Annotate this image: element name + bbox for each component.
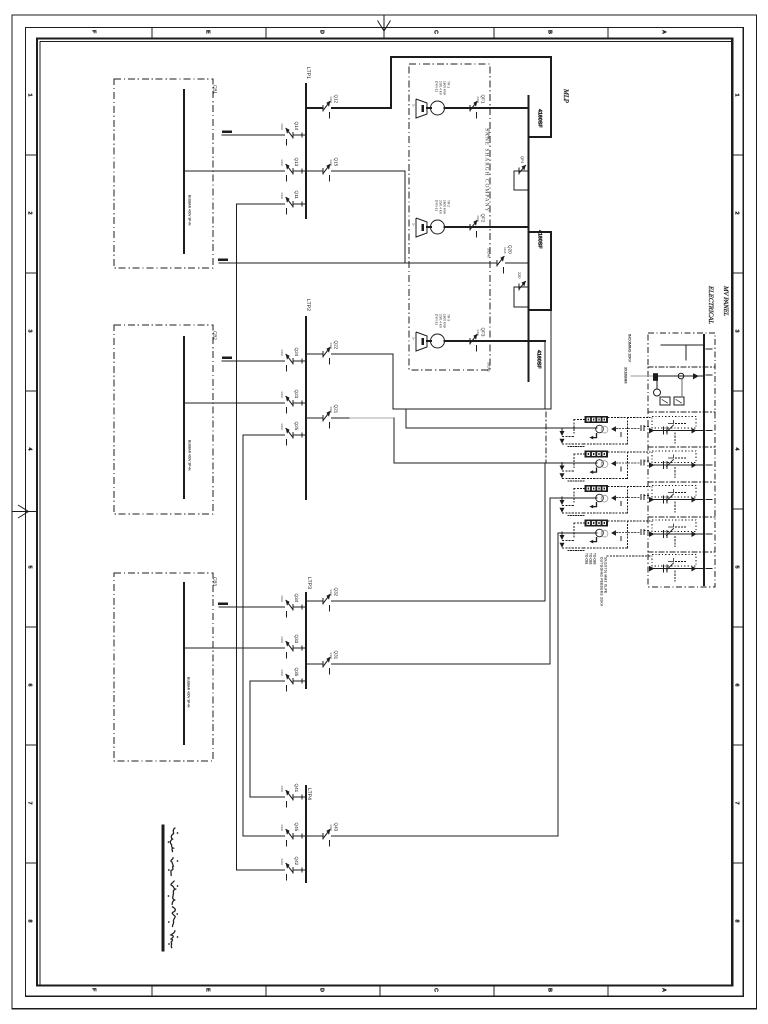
tie wire LTP1-LTP4 vertical: [236, 204, 238, 870]
wire transformer T1 output: [445, 107, 529, 109]
meter return arrow: [593, 537, 597, 542]
CT arrow: [611, 461, 616, 467]
bus LTP2: [305, 317, 307, 499]
zone ticks left edge: [25, 154, 37, 156]
svg-text:DYN-11: DYN-11: [435, 200, 439, 211]
svg-text:5: 5: [27, 566, 33, 569]
kWh meter circles: [596, 529, 604, 537]
svg-text:Q21: Q21: [334, 405, 339, 414]
svg-text:630A: 630A: [280, 160, 284, 167]
svg-text:3~: 3~: [412, 337, 416, 341]
dotted wire strip left: [574, 488, 585, 490]
svg-text:4160SF: 4160SF: [536, 350, 542, 369]
main LV supply wire to MV riser: [219, 262, 529, 264]
relay box 2: [674, 397, 684, 405]
svg-text:630A: 630A: [503, 247, 507, 254]
svg-text:630A: 630A: [280, 670, 284, 677]
switch Q34: [285, 606, 294, 609]
wire LTP3 to metering junction (Q32 branch): [306, 600, 545, 602]
wire CB1 busbar to LTP1: [184, 170, 306, 172]
centering arrow top: [383, 15, 385, 39]
dotted wire strip to MV bay: [608, 417, 650, 419]
svg-text:630A: 630A: [329, 343, 333, 350]
transformer T1: [416, 99, 427, 118]
wire LTP1 to MLP bay1 (Q12 branch): [306, 107, 391, 109]
bay switch: [663, 565, 665, 572]
svg-text:630A: 630A: [280, 424, 284, 431]
bay dotted box: [652, 486, 696, 498]
svg-text:1: 1: [27, 94, 33, 97]
tap wire to metering feeder 1: [405, 409, 407, 428]
incomer arrow: [693, 373, 699, 379]
svg-text:Q20: Q20: [508, 245, 513, 254]
svg-text:Q35: Q35: [294, 668, 299, 677]
wire LTP1 to LTP4 tie (Q11 branch): [237, 203, 307, 205]
switch QF2: [470, 226, 479, 229]
bay dotted box: [652, 555, 696, 567]
bus LTP3: [305, 593, 307, 688]
svg-text:3X(1X70) MM2 XLPE: 3X(1X70) MM2 XLPE: [604, 557, 608, 593]
svg-text:SANE SHARGH COMPANY: SANE SHARGH COMPANY: [484, 128, 490, 212]
tie wire LTP3-LTP4 vertical: [249, 681, 251, 797]
svg-text:BUSBAR 400V 3P+N: BUSBAR 400V 3P+N: [188, 195, 192, 226]
svg-text:630A: 630A: [280, 859, 284, 866]
switch Q23: [285, 402, 294, 405]
MV panel enclosure: [648, 333, 715, 587]
svg-text:LTP4: LTP4: [306, 788, 312, 800]
svg-text:MLP: MLP: [562, 88, 570, 104]
dotted links: [563, 540, 575, 542]
kWh meter circles: [596, 425, 604, 433]
svg-text:B: B: [547, 30, 553, 34]
switch Q33: [285, 647, 294, 650]
bay switch: [663, 531, 665, 538]
wire transformer T3 output: [445, 340, 546, 342]
svg-text:LTP1: LTP1: [305, 67, 311, 79]
svg-text:D: D: [319, 30, 325, 34]
panel box CB3 (dashed enclosure): [114, 573, 213, 761]
dotted wire strip left: [574, 522, 585, 524]
svg-text:DYN-11: DYN-11: [435, 81, 439, 92]
dotted links: [563, 470, 575, 472]
zone ticks right edge: [732, 154, 743, 156]
bay2 outline: [529, 231, 551, 233]
centering arrow left: [12, 511, 37, 513]
spare feeder tag: [222, 131, 232, 133]
bay dotted box: [652, 417, 696, 429]
bus LTP1: [305, 84, 307, 218]
svg-text:D: D: [319, 988, 325, 992]
bay switch: [663, 496, 665, 503]
svg-text:630A: 630A: [476, 330, 480, 337]
svg-text:4160SF: 4160SF: [537, 109, 543, 128]
wire tie from LTP3 to LTP4 (Q41): [250, 796, 306, 798]
svg-text:BUSBAR 400V 3P+N: BUSBAR 400V 3P+N: [187, 677, 191, 708]
dotted wire strip left: [574, 453, 585, 455]
svg-text:Q15: Q15: [334, 158, 339, 167]
wire CB2 busbar to LTP2: [184, 402, 306, 404]
switch Q42: [285, 869, 294, 872]
svg-text:8: 8: [734, 920, 740, 923]
svg-text:Q14: Q14: [294, 122, 299, 131]
switch Q32: [323, 600, 332, 603]
switch Q41: [285, 796, 294, 799]
switch Q12: [323, 107, 332, 110]
bay input arrow: [649, 428, 655, 434]
wire LTP1 to riser (Q15 branch): [306, 170, 405, 172]
switch Q21: [323, 417, 332, 420]
svg-text:8: 8: [27, 920, 33, 923]
svg-text:B: B: [547, 988, 553, 992]
svg-text:630A: 630A: [476, 97, 480, 104]
svg-text:3X240: 3X240: [487, 248, 491, 258]
dotted wire strip to MV bay: [608, 451, 650, 453]
svg-text:Q23: Q23: [294, 390, 299, 399]
svg-text:3: 3: [734, 330, 740, 333]
wire LTP2 to LTP4 tie (Q25 branch): [243, 434, 306, 436]
incomer VT circle: [678, 373, 684, 379]
svg-text:BUSBAR 400V 3P+N: BUSBAR 400V 3P+N: [188, 440, 192, 471]
metering CT terminal strip: [585, 451, 609, 458]
svg-text:630A: 630A: [329, 97, 333, 104]
svg-text:220: 220: [517, 272, 521, 278]
svg-text:630A: 630A: [280, 825, 284, 832]
bay switch: [663, 462, 665, 469]
svg-text:Q12: Q12: [334, 95, 339, 104]
svg-text:Q32: Q32: [334, 588, 339, 597]
supply wire tag: [218, 259, 228, 261]
svg-text:DYN-11: DYN-11: [435, 314, 439, 325]
svg-text:A: A: [661, 988, 667, 992]
svg-text:Q25: Q25: [294, 422, 299, 431]
dotted wire strip left: [574, 419, 585, 421]
svg-text:INCOMING 20KV: INCOMING 20KV: [628, 334, 632, 363]
MV panel bay dividers: [648, 366, 715, 368]
svg-text:630A: 630A: [329, 653, 333, 660]
svg-text:E: E: [205, 988, 211, 992]
switch Q11: [285, 203, 294, 206]
svg-text:6: 6: [734, 684, 740, 687]
wire stub spare feeder LTP2: [222, 360, 306, 362]
svg-text:Q33: Q33: [294, 635, 299, 644]
svg-text:630A: 630A: [280, 193, 284, 200]
svg-text:A: A: [661, 30, 667, 34]
svg-text:MV PANEL: MV PANEL: [722, 285, 729, 317]
bay input arrow: [649, 566, 655, 572]
kWh meter circles: [596, 494, 604, 502]
meter return arrow: [593, 468, 597, 473]
supply arrows: [560, 535, 565, 540]
svg-text:630A: 630A: [476, 216, 480, 223]
wire transformer T2 output: [445, 226, 529, 228]
svg-text:3~: 3~: [412, 223, 416, 227]
bay switch: [663, 427, 665, 434]
svg-text:Q31: Q31: [334, 651, 339, 660]
5th bay dotted wire: [607, 555, 650, 557]
inner frame doubled line left: [39, 42, 41, 986]
transformer room enclosure: [409, 64, 490, 370]
svg-text:TO CB2: TO CB2: [589, 553, 593, 565]
bay dotted box: [652, 451, 696, 463]
transformer3 down feeder: [544, 341, 546, 409]
svg-text:LTP2: LTP2: [305, 299, 311, 311]
svg-text:5: 5: [734, 566, 740, 569]
meter return arrow: [593, 433, 597, 438]
earthing switch QF4: [514, 170, 529, 172]
svg-text:630A: 630A: [280, 596, 284, 603]
svg-text:630A: 630A: [329, 590, 333, 597]
svg-text:7: 7: [27, 802, 33, 805]
switch Q22: [323, 353, 332, 356]
switch Q15: [323, 170, 332, 173]
svg-text:ELECTRICAL: ELECTRICAL: [707, 285, 714, 324]
dotted wire strip to MV bay: [608, 486, 650, 488]
incomer CT: [653, 373, 658, 381]
svg-text:Q13: Q13: [294, 158, 299, 167]
transformer T2: [416, 218, 427, 237]
svg-text:Q22: Q22: [334, 341, 339, 350]
svg-text:OUTGOING FEEDERS 20KV: OUTGOING FEEDERS 20KV: [600, 557, 604, 607]
svg-text:TO CB1: TO CB1: [585, 553, 589, 565]
dotted links: [563, 505, 575, 507]
svg-text:630A: 630A: [280, 637, 284, 644]
svg-text:E: E: [205, 30, 211, 34]
svg-text:630A: 630A: [329, 825, 333, 832]
earthing switch 220: [514, 286, 529, 288]
MV incomer cable (faint): [631, 375, 653, 377]
svg-text:CB2: CB2: [213, 331, 218, 340]
svg-text:C: C: [433, 30, 439, 34]
svg-text:630A: 630A: [329, 160, 333, 167]
svg-text:630A: 630A: [280, 124, 284, 131]
svg-text:Q45: Q45: [294, 823, 299, 832]
svg-text:QF2: QF2: [481, 214, 486, 223]
switch Q13: [285, 170, 294, 173]
CT arrow: [611, 530, 616, 536]
svg-text:LTP3: LTP3: [306, 577, 312, 589]
bus LTP4: [305, 786, 307, 882]
switch Q45: [285, 835, 294, 838]
metering CT terminal strip: [585, 485, 609, 492]
MV bus: [703, 335, 705, 585]
svg-text:QF4: QF4: [520, 156, 524, 163]
svg-text:QF1: QF1: [481, 95, 486, 104]
wire LTP3 to metering feeder 3 (Q31 branch): [306, 663, 550, 665]
kWh meter circles: [596, 460, 604, 468]
svg-text:2: 2: [734, 212, 740, 215]
svg-text:7: 7: [734, 802, 740, 805]
switch Q24: [285, 360, 294, 363]
switch Q31: [323, 663, 332, 666]
MV riser: [528, 96, 530, 381]
transformer T3: [416, 332, 427, 351]
svg-text:CB1: CB1: [213, 85, 218, 94]
relay box 1: [660, 397, 670, 405]
switch Q25: [285, 434, 294, 437]
svg-text:3X240: 3X240: [487, 362, 491, 372]
switch Q14: [285, 134, 294, 137]
bay input arrow: [649, 531, 655, 537]
svg-text:Q34: Q34: [294, 594, 299, 603]
wire CB3 busbar to LTP3: [184, 647, 306, 649]
title underline: [162, 826, 165, 950]
switch Q20: [497, 262, 506, 265]
room boundary dash-dot: [545, 412, 547, 462]
wire LTP2 to bay2 (Q22 branch): [306, 353, 393, 355]
bay input arrow: [649, 497, 655, 503]
svg-text:630A: 630A: [280, 392, 284, 399]
bay dotted box: [652, 520, 696, 532]
spare feeder tag LTP2: [222, 357, 232, 359]
svg-text:3: 3: [27, 330, 33, 333]
wire LTP2 to metering feeder 2 (Q21 branch): [306, 417, 350, 419]
wire stub spare feeder LTP1: [222, 134, 306, 136]
svg-text:630A: 630A: [329, 407, 333, 414]
persian title (stylized): [170, 828, 175, 852]
tie wire LTP2-LTP4 vertical: [242, 435, 244, 836]
svg-text:CB3: CB3: [213, 577, 218, 586]
wire LTP3 to LTP4 tie (Q35 branch): [250, 680, 306, 682]
MV top compartment link: [661, 344, 704, 346]
supply arrows: [560, 500, 565, 505]
MV bus taps: [706, 348, 712, 350]
svg-text:2: 2: [27, 212, 33, 215]
svg-text:Q11: Q11: [294, 191, 299, 200]
svg-text:TO CB3: TO CB3: [593, 553, 597, 565]
wire tie from LTP2 + metering feeder 4 (Q45/Q43 branch): [243, 835, 306, 837]
wire tie from LTP1 to LTP4 (Q42): [237, 869, 307, 871]
wire stub spare feeder LTP3: [219, 606, 306, 608]
svg-text:3~: 3~: [412, 104, 416, 108]
svg-text:QF3: QF3: [481, 328, 486, 337]
svg-text:630A: 630A: [280, 350, 284, 357]
zone ticks bottom edge: [151, 986, 153, 997]
meter return arrow: [593, 502, 597, 507]
panel box CB1 (dashed enclosure): [114, 79, 213, 268]
svg-text:Q24: Q24: [294, 348, 299, 357]
incomer meter circle: [654, 389, 661, 396]
bay input arrow: [649, 462, 655, 468]
spare feeder tag LTP3: [218, 603, 228, 605]
supply arrows: [560, 466, 565, 471]
metering CT terminal strip: [585, 416, 609, 423]
svg-text:630A: 630A: [280, 786, 284, 793]
zone ticks top edge: [151, 27, 153, 38]
svg-text:6: 6: [27, 684, 33, 687]
CT arrow: [611, 426, 616, 432]
svg-text:Q42: Q42: [294, 857, 299, 866]
svg-text:C: C: [433, 988, 439, 992]
busbar of panel CB3: [183, 583, 185, 744]
busbar of panel CB2: [183, 337, 185, 498]
svg-text:3X185MM: 3X185MM: [624, 367, 628, 383]
busbar of panel CB1: [183, 90, 185, 253]
metering CT terminal strip: [585, 520, 609, 527]
supply arrows: [560, 431, 565, 436]
svg-text:Q43: Q43: [334, 823, 339, 832]
CT arrow: [611, 495, 616, 501]
dotted wire strip to MV bay: [608, 520, 650, 522]
panel box CB2 (dashed enclosure): [114, 325, 213, 514]
inner frame doubled line top: [40, 41, 732, 43]
svg-text:Q41: Q41: [294, 784, 299, 793]
dotted links: [563, 436, 575, 438]
switch Q35: [285, 680, 294, 683]
svg-text:4160SF: 4160SF: [537, 230, 543, 249]
switch Q43: [323, 835, 332, 838]
bay1 outline: [550, 57, 552, 137]
switch QF3: [470, 340, 479, 343]
svg-text:1: 1: [734, 94, 740, 97]
switch QF1: [470, 107, 479, 110]
